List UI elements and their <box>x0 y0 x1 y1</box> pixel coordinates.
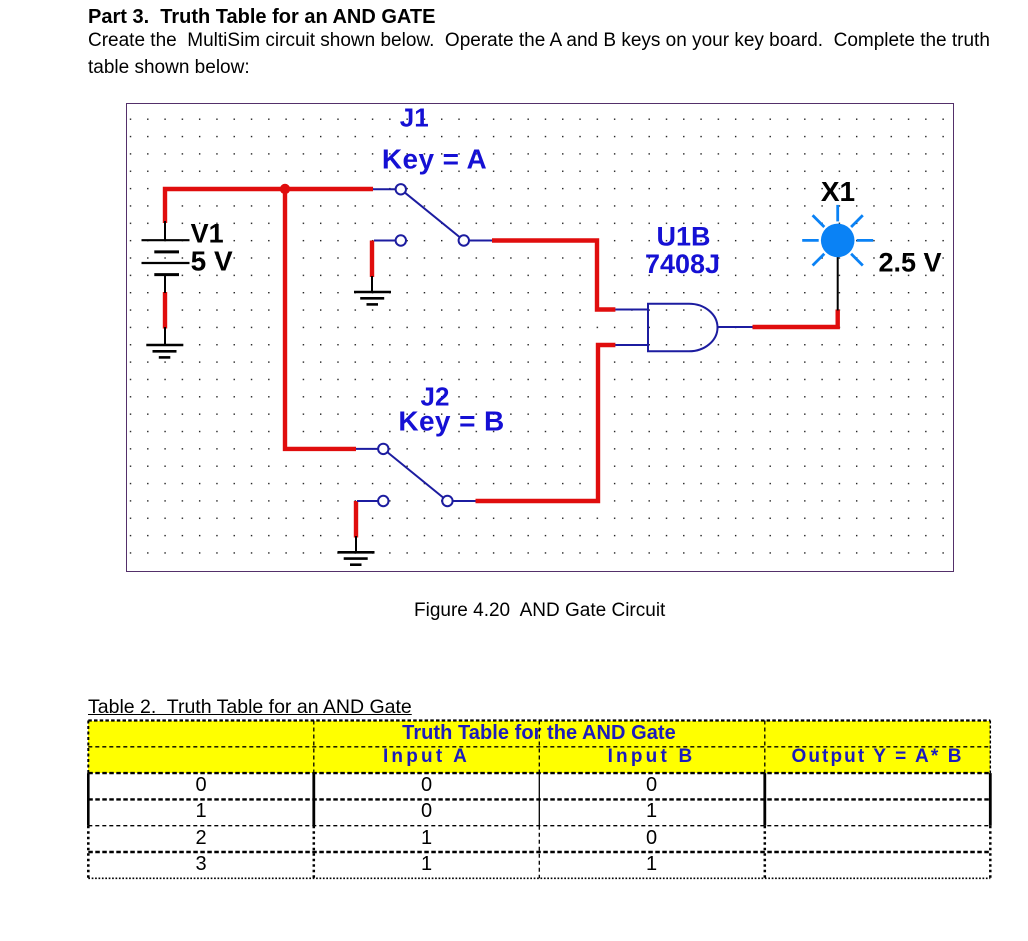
battery V1 pin wires <box>164 221 166 240</box>
title <box>88 6 435 29</box>
paragraph line 2 <box>88 57 250 79</box>
switch J1 <box>373 184 492 246</box>
lamp X1 lead <box>837 257 839 311</box>
circuit canvas with dotted grid <box>126 103 954 572</box>
ground (J2) <box>338 552 375 564</box>
truth table text <box>88 722 990 745</box>
table label <box>88 696 412 719</box>
switch J2 <box>356 444 476 507</box>
and-gate U1B pin 2 <box>615 344 648 346</box>
ground (J1) <box>354 292 391 304</box>
wire: J1 output to gate input 1 <box>492 241 615 310</box>
wire: battery negative stub <box>163 292 167 329</box>
wire: battery negative to ground stem <box>164 327 166 345</box>
wire: battery positive to top rail <box>165 189 373 223</box>
grid dots <box>128 105 952 569</box>
and-gate U1B body <box>615 304 752 352</box>
paragraph line 1 <box>88 30 990 52</box>
and-gate U1B pin 1 <box>615 309 648 311</box>
truth table yellow header background <box>88 721 990 774</box>
junction node (top rail to J2 drop) <box>280 184 290 194</box>
figure caption <box>414 600 665 622</box>
and-gate U1B output pin <box>718 326 753 328</box>
ground (battery) <box>146 345 183 357</box>
battery V1 plates <box>142 240 190 274</box>
wire: drop from junction down to J2 common <box>285 189 356 449</box>
wire: J1 lower-left terminal to ground <box>370 241 374 278</box>
wire: gate output to lamp <box>753 310 838 328</box>
wire: J2 output to gate input 2 <box>476 345 616 501</box>
J1 ground stem <box>371 276 373 292</box>
lamp X1 <box>802 205 873 266</box>
wire: J2 lower-left terminal to ground <box>354 501 358 538</box>
J2 ground stem <box>355 536 357 552</box>
